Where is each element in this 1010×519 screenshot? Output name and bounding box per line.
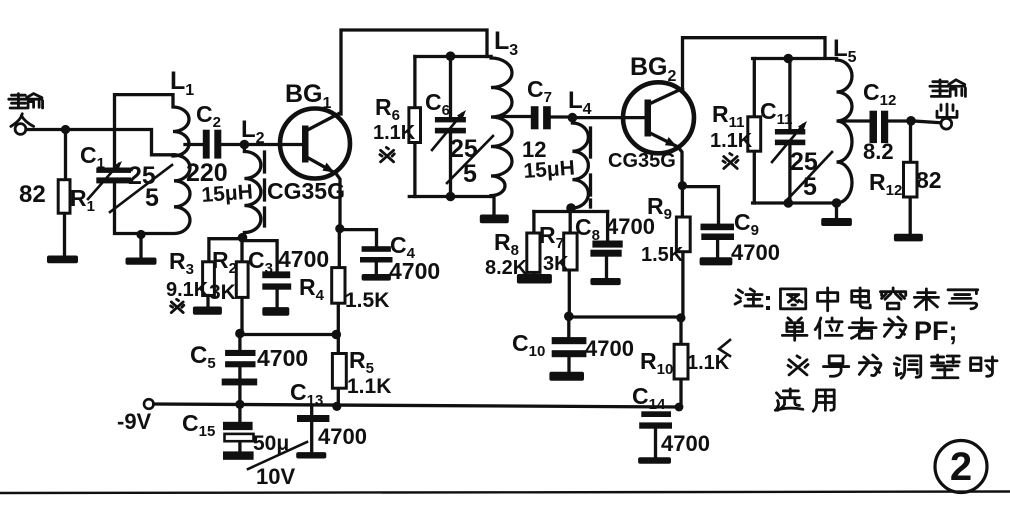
ground (C14) [638, 457, 671, 463]
note text line 1: 注:图中电容未写 [735, 288, 978, 311]
wire BG1 collector to top rail [341, 30, 487, 114]
wire L1 ground stem [139, 235, 142, 258]
node R5 on -9V rail [332, 402, 341, 411]
svg-text:-9V: -9V [117, 409, 152, 434]
svg-text:5: 5 [145, 184, 159, 212]
svg-text:2: 2 [950, 445, 972, 489]
capacitor C7 [531, 106, 573, 129]
svg-text:L3: L3 [494, 27, 518, 59]
※ mark (R3) [171, 299, 184, 312]
svg-text:4700: 4700 [318, 424, 367, 449]
ground (C8) [590, 278, 620, 285]
wire -9V rail [154, 404, 681, 407]
capacitor C12 [870, 111, 912, 143]
svg-text:C5: C5 [190, 342, 216, 372]
ground (L5 tank) [821, 218, 852, 226]
output terminal 输出 [930, 80, 966, 129]
svg-text:C1: C1 [80, 142, 105, 172]
wire node to R5 node [240, 333, 336, 336]
svg-text:C9: C9 [734, 209, 759, 239]
node L5 bottom [832, 198, 842, 208]
svg-text:R12: R12 [869, 169, 902, 199]
svg-text:R8: R8 [494, 229, 519, 259]
svg-text:1.5K: 1.5K [345, 289, 389, 312]
svg-text:25: 25 [450, 135, 478, 163]
svg-text:5: 5 [803, 173, 817, 201]
resistor R11 [753, 59, 756, 204]
node BG2 emitter [678, 181, 687, 190]
ground (R12) [894, 234, 923, 242]
wire L5 tank bottom [753, 203, 837, 218]
svg-text:1.1K: 1.1K [710, 130, 753, 152]
inductor L4 [572, 118, 588, 208]
node L4 bottom [566, 203, 576, 213]
svg-text:R3: R3 [169, 248, 194, 278]
node C7/L4/base [568, 113, 578, 123]
svg-text:R11: R11 [712, 101, 744, 131]
svg-text:C14: C14 [632, 383, 666, 413]
resistor R5 [337, 335, 340, 407]
svg-text:CG35G: CG35G [267, 178, 345, 204]
svg-text:C12: C12 [863, 79, 896, 109]
svg-text:L5: L5 [833, 35, 857, 66]
svg-text:1.1K: 1.1K [373, 122, 416, 144]
ground (L1 tank) [126, 258, 157, 265]
node input/R1 junction [61, 125, 70, 134]
node L1 bottom [136, 230, 145, 239]
node R7/C10 [564, 312, 574, 322]
svg-text:C10: C10 [512, 330, 545, 360]
svg-text:82: 82 [916, 167, 942, 193]
wire L5 tank top [753, 57, 837, 60]
svg-text:1.1K: 1.1K [347, 375, 391, 398]
svg-text:R9: R9 [647, 193, 672, 223]
svg-text:R10: R10 [640, 348, 673, 378]
figure number ② [935, 441, 987, 493]
svg-text:1.1K: 1.1K [687, 352, 730, 374]
node L2 bottom [238, 233, 248, 243]
node R9/R10 [676, 313, 685, 322]
inductor L1 (tapped tank coil) [115, 95, 191, 234]
ground (R3) [193, 307, 222, 315]
resistor R10 [679, 318, 682, 407]
capacitor C2 [185, 130, 244, 159]
ground (C13) [296, 452, 326, 458]
node C6 top [446, 51, 456, 61]
svg-text:1.5K: 1.5K [641, 244, 684, 266]
wire rail B (R6/C6/L3 tops) [415, 55, 491, 58]
svg-text:L1: L1 [170, 67, 194, 99]
capacitor C11 (variable) [772, 59, 807, 204]
node R10 on rail [675, 403, 684, 412]
inductor L3 [491, 57, 512, 197]
node C11 bottom [784, 198, 794, 208]
node C15 on rail [235, 400, 244, 409]
transistor BG2 [623, 82, 694, 185]
svg-text:4700: 4700 [731, 240, 780, 265]
-9V supply terminal [144, 399, 154, 409]
svg-text:3K: 3K [209, 281, 236, 304]
wire emitter to R4 [338, 229, 339, 335]
wire to output terminal [911, 121, 941, 123]
L2 core dashed line [263, 152, 266, 226]
capacitor C5 [222, 334, 258, 404]
wire R1 stem [65, 130, 66, 256]
svg-text:C2: C2 [196, 101, 221, 131]
note text line 3: ※号为调整时 [788, 355, 997, 378]
note text line 4: 选用 [775, 389, 834, 411]
resistor R8 [532, 212, 535, 275]
inductor L2 [244, 145, 261, 238]
svg-text:3K: 3K [543, 253, 569, 275]
svg-text:4700: 4700 [585, 336, 634, 361]
svg-text:C3: C3 [248, 247, 273, 277]
svg-text:15μH: 15μH [201, 180, 254, 207]
node R4/R5 [332, 330, 342, 340]
svg-text:C15: C15 [182, 410, 215, 440]
capacitor C6 (variable) [432, 57, 466, 197]
stray mark [719, 340, 730, 356]
resistor R6 [413, 57, 416, 197]
resistor R12 [909, 121, 913, 234]
node C11 top [784, 54, 794, 64]
svg-text:C6: C6 [425, 89, 450, 119]
resistor R2 [240, 238, 243, 334]
svg-text:C11: C11 [760, 98, 792, 128]
capacitor C14 [639, 411, 672, 457]
resistor R3 [203, 262, 215, 296]
input terminal 输入 [9, 94, 43, 135]
wire BG1 base [244, 143, 303, 146]
resistor R1 [58, 180, 70, 214]
node C6 bottom [446, 192, 456, 202]
capacitor C13 [297, 407, 329, 452]
ground (C10) [549, 372, 584, 381]
svg-text:PF;: PF; [914, 316, 958, 346]
resistor R7 [568, 212, 572, 317]
svg-text:15μH: 15μH [523, 156, 576, 183]
svg-text:9.1K: 9.1K [166, 279, 209, 301]
node C2/L2/base [240, 140, 250, 150]
svg-text:R7: R7 [539, 222, 564, 252]
svg-text:L2: L2 [241, 116, 265, 147]
wire L4 bottom distribution [534, 208, 608, 212]
capacitor C10 [552, 317, 587, 372]
wire L5 tap to C12 [845, 119, 870, 122]
svg-text:4700: 4700 [278, 246, 329, 272]
capacitor C9 [682, 187, 734, 258]
resistor R9 [681, 186, 685, 318]
svg-text:R6: R6 [375, 94, 400, 124]
svg-text:82: 82 [19, 181, 46, 208]
transistor BG1 [280, 109, 350, 229]
svg-text:CG35G: CG35G [608, 150, 676, 172]
ground (C3) [262, 307, 289, 316]
svg-text:C13: C13 [290, 379, 323, 409]
svg-text:L4: L4 [568, 87, 592, 118]
svg-text:C7: C7 [527, 76, 552, 106]
svg-text:5: 5 [463, 160, 477, 188]
svg-text:10V: 10V [256, 464, 295, 489]
capacitor C1 (variable, on tank left leg) [88, 161, 131, 199]
node BG1 emitter [335, 224, 344, 233]
capacitor C8 [590, 212, 622, 279]
inductor L5 [837, 59, 852, 204]
ground (C4) [362, 274, 391, 281]
wire BG2 base [572, 116, 645, 119]
※ mark (R6) [380, 147, 394, 161]
wire L3 tank bottom [409, 197, 494, 215]
svg-text:BG2: BG2 [630, 53, 677, 85]
capacitor C4 [339, 230, 392, 274]
ground (R1) [47, 256, 78, 264]
svg-text:4700: 4700 [661, 431, 710, 456]
resistor R4 [332, 268, 345, 304]
wire to R3 [209, 239, 243, 262]
svg-text:4700: 4700 [257, 345, 308, 371]
svg-text:R2: R2 [212, 247, 237, 277]
ground (L3 tank) [480, 215, 509, 224]
wire R3 ground stem [206, 296, 209, 307]
capacitor C3 [243, 241, 292, 308]
capacitor C15 (electrolytic 50u/10V) [223, 404, 254, 459]
wire BG2 collector to top-right rail [683, 38, 826, 89]
svg-text:R5: R5 [349, 347, 374, 377]
svg-text:C8: C8 [575, 214, 600, 244]
svg-text:8.2: 8.2 [863, 139, 894, 164]
svg-text:BG1: BG1 [285, 80, 332, 112]
node R2/C5 [235, 329, 245, 339]
node C12/R12 [906, 116, 916, 126]
bottom border line [0, 492, 1010, 494]
svg-text:4700: 4700 [389, 258, 440, 284]
svg-text:R4: R4 [299, 274, 325, 304]
L4 core dashed line [589, 128, 592, 207]
wire L3 tap to C7 [498, 115, 531, 118]
ground (C9) [700, 257, 733, 265]
wire node to R9/R10 junction [569, 315, 680, 318]
svg-text:R1: R1 [70, 185, 95, 215]
※ mark (R11) [723, 154, 738, 169]
ground (R8) [517, 274, 552, 284]
wire input to L1 tap [26, 130, 174, 155]
note text line 2: 单位者为PF; [782, 316, 957, 346]
